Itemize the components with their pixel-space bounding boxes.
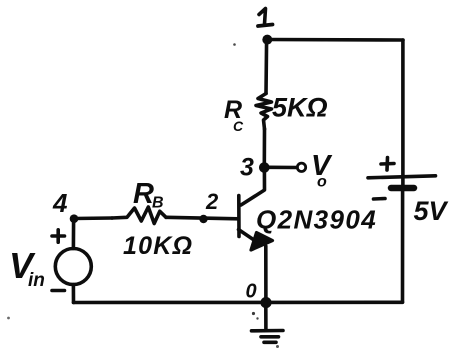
label 5K ohm <box>272 93 328 123</box>
battery minus sign <box>374 197 386 201</box>
wire node4 to RB <box>74 216 112 220</box>
source minus sign <box>52 289 65 293</box>
node 2 label <box>205 189 219 214</box>
node 0 label <box>246 281 257 303</box>
svg-text:R: R <box>133 178 154 210</box>
open terminal circle Vo <box>297 163 305 171</box>
svg-text:5KΩ: 5KΩ <box>272 93 328 123</box>
transistor Q2N3904 base bar <box>237 196 241 237</box>
battery negative short plate <box>391 185 414 192</box>
resistor RB zigzag <box>112 207 166 224</box>
node 3 junction dot <box>259 162 270 173</box>
node 2 junction dot <box>199 215 207 223</box>
wire emitter down to node 0 <box>264 246 268 303</box>
label R_B <box>133 178 164 212</box>
scan speck below ground <box>276 345 279 348</box>
source Vin circle <box>55 249 91 285</box>
svg-text:B: B <box>152 195 164 212</box>
svg-text:Q2N3904: Q2N3904 <box>256 205 377 235</box>
wire top horizontal node1 to right corner <box>267 38 403 42</box>
node 3 label <box>240 154 254 182</box>
svg-text:o: o <box>317 174 327 191</box>
svg-text:3: 3 <box>240 154 254 182</box>
node 4 junction dot <box>70 214 79 223</box>
scan speck left of ground stem 2 <box>256 317 258 319</box>
scan speck bottom left <box>7 317 10 320</box>
label 5V <box>414 196 449 226</box>
svg-text:C: C <box>233 118 244 134</box>
scan speck near node 1 <box>233 43 236 46</box>
wire bottom rail <box>74 300 403 304</box>
wire Rc bottom to node3 <box>262 129 266 168</box>
svg-text:5V: 5V <box>414 196 449 226</box>
label R_C <box>224 96 244 134</box>
wire battery bottom down to bottom rail <box>401 188 405 303</box>
ground bar 2 <box>261 335 279 339</box>
wire node3 to Vo terminal <box>268 166 297 170</box>
battery positive long plate <box>368 176 436 178</box>
wire RB to base <box>166 217 238 219</box>
transistor Q2N3904 emitter arrowhead <box>251 233 273 251</box>
ground bar 3 <box>264 340 276 344</box>
ground stem <box>264 303 268 329</box>
svg-text:2: 2 <box>205 189 219 214</box>
node 4 label <box>52 188 68 218</box>
svg-text:10KΩ: 10KΩ <box>123 232 193 260</box>
label V_in <box>9 245 45 291</box>
svg-text:4: 4 <box>52 188 68 218</box>
label Q2N3904 <box>256 205 377 235</box>
battery plus sign <box>381 158 394 171</box>
transistor Q2N3904 collector lead <box>241 168 265 206</box>
node 1 junction dot <box>262 35 272 45</box>
wire node1 down to Rc top <box>264 40 268 94</box>
wire node4 down to source <box>72 219 76 249</box>
source plus sign <box>52 230 65 242</box>
label 10K ohm <box>123 232 193 260</box>
transistor Q2N3904 emitter lead <box>239 230 258 243</box>
wire right vertical down to battery <box>401 40 405 188</box>
node 0 junction dot <box>260 297 271 308</box>
scan speck left of ground stem <box>252 312 255 315</box>
label V_o <box>311 150 333 191</box>
ground bar 1 <box>252 329 284 333</box>
wire source bottom to bottom rail <box>72 285 76 303</box>
node 1 label <box>259 9 266 25</box>
svg-text:in: in <box>28 270 45 291</box>
svg-text:0: 0 <box>246 281 257 303</box>
resistor RC zigzag <box>256 94 272 130</box>
